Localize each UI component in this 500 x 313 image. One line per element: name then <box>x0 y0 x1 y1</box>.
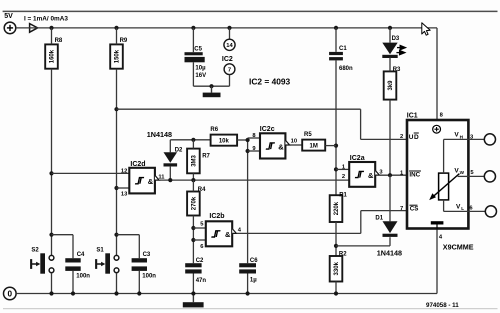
diode D1 <box>383 221 398 237</box>
pin 8 label <box>440 113 444 119</box>
pin 1 label <box>342 165 346 171</box>
label R4 <box>198 187 206 193</box>
IC1 internal VH wire <box>444 139 469 173</box>
pin 5 label <box>470 170 474 176</box>
svg-text:2: 2 <box>400 134 403 140</box>
wire node89 vertical <box>247 138 249 263</box>
pin 4 label <box>238 228 242 234</box>
wire U/D net <box>117 109 408 139</box>
label I = 1mA/ 0mA3 <box>24 15 68 22</box>
capacitor C3 <box>132 258 147 271</box>
svg-text:10: 10 <box>291 139 297 145</box>
IC1 label INC <box>409 171 421 178</box>
svg-text:C5: C5 <box>194 47 202 53</box>
op-gate IC2a <box>349 162 379 187</box>
IC1 internal VL wire <box>444 200 469 212</box>
label C4 value <box>76 274 90 280</box>
wire IC2d pin12 <box>52 172 130 174</box>
junction rail S1 <box>114 291 118 295</box>
label IC2d <box>130 161 145 168</box>
wire D2 R7 R6 node <box>170 139 210 141</box>
ground terminal 0 <box>4 287 17 300</box>
pin 11 label <box>158 174 165 180</box>
label R6 <box>210 127 218 133</box>
wire +5V rail <box>16 28 437 120</box>
wire IC2c pin9 <box>248 150 260 152</box>
junction top rail R8 <box>49 26 53 30</box>
junction node A pin1 <box>334 167 338 171</box>
svg-text:CS: CS <box>410 206 419 213</box>
svg-text:680n: 680n <box>339 66 353 72</box>
svg-text:R9: R9 <box>120 38 128 44</box>
junction top rail C1 <box>334 26 338 30</box>
wire IC2b pin6 <box>193 239 205 241</box>
capacitor C1 <box>329 52 343 60</box>
wire C5 bottom <box>193 62 229 86</box>
svg-text:D: D <box>414 134 419 141</box>
svg-text:2: 2 <box>342 174 345 180</box>
label IC2b <box>209 213 224 220</box>
IC1 label VW <box>454 167 464 175</box>
pin 8 label <box>252 133 256 139</box>
junction rail C6 <box>246 291 250 295</box>
label C6 <box>250 258 258 264</box>
IC2 pin 14 <box>224 28 235 51</box>
resistor R9 <box>110 44 123 68</box>
svg-text:C3: C3 <box>143 252 151 258</box>
pin 1 label <box>400 170 404 176</box>
wire C1 top <box>335 28 337 52</box>
svg-text:C1: C1 <box>339 46 347 52</box>
label C5 <box>194 47 202 53</box>
LED D3 <box>382 43 397 58</box>
label D1 <box>375 216 383 222</box>
wire S2 bottom <box>51 273 53 294</box>
wire IC2d pin13 <box>117 187 130 189</box>
junction R8 pin12 <box>49 171 53 175</box>
pin 5 label <box>200 221 204 227</box>
svg-text:16V: 16V <box>195 73 206 79</box>
capacitor C4 <box>65 258 80 271</box>
junction R9 pin13 <box>114 186 118 190</box>
svg-text:I = 1mA/ 0mA3: I = 1mA/ 0mA3 <box>24 15 68 22</box>
wire R5 out <box>325 145 336 147</box>
wire IC2c out <box>290 144 302 146</box>
resistor R3 <box>384 71 397 99</box>
IC1 plus marker <box>433 125 441 133</box>
junction rail C2 <box>191 291 195 295</box>
wire D3 top <box>389 28 391 43</box>
svg-text:C6: C6 <box>250 258 258 264</box>
terminal VL <box>485 206 496 217</box>
junction node11 R7 R4 <box>191 178 195 182</box>
junction R9 UD line <box>114 107 118 111</box>
svg-text:IC2 = 4093: IC2 = 4093 <box>249 77 291 87</box>
junction node89 bottom <box>246 149 250 153</box>
wire R4 to IC2b <box>192 216 194 264</box>
label C3 <box>143 252 151 258</box>
junction node A R5 <box>334 144 338 148</box>
svg-text:IC2: IC2 <box>222 56 233 63</box>
svg-text:0: 0 <box>8 290 13 299</box>
wire C6 bottom <box>247 274 249 294</box>
wire C2 bottom <box>192 274 194 294</box>
wire IC2a out to INC <box>380 174 407 176</box>
wire IC2a pin1 <box>336 168 349 170</box>
svg-text:7: 7 <box>400 206 403 212</box>
op-gate IC2c <box>260 133 290 158</box>
label R8 <box>55 38 63 44</box>
mouse cursor <box>422 23 430 35</box>
resistor R7 <box>187 149 200 174</box>
wire R8 to S2 <box>51 69 53 256</box>
pin 4 label <box>439 234 443 240</box>
label 974058 - 11 <box>426 302 459 309</box>
svg-text:1N4148: 1N4148 <box>377 248 402 257</box>
wire R9 to S1 <box>116 69 118 256</box>
label 1N4148 top <box>147 130 172 139</box>
junction rail C3 <box>137 291 141 295</box>
junction rail C4 <box>71 291 75 295</box>
wire R3 to INC node <box>389 100 391 176</box>
border frame bottom <box>3 308 498 310</box>
label C4 <box>77 252 85 258</box>
svg-text:R3: R3 <box>393 67 401 73</box>
border frame top <box>3 10 498 12</box>
label D2 <box>175 147 183 153</box>
wire R1 bottom <box>335 222 337 256</box>
label R3 <box>393 67 401 73</box>
svg-text:150k: 150k <box>115 49 121 63</box>
svg-text:IC1: IC1 <box>407 112 418 119</box>
svg-text:12: 12 <box>121 169 127 175</box>
label IC1 <box>407 112 418 119</box>
switch S2 <box>30 253 54 273</box>
IC1 label VL <box>456 203 464 211</box>
svg-text:330k: 330k <box>334 261 340 275</box>
svg-text:D3: D3 <box>392 36 400 42</box>
junction top rail IC2 pin14 <box>227 26 231 30</box>
resistor R1 <box>330 195 343 222</box>
pin 3 label <box>470 134 474 140</box>
label 1N4148 bottom <box>377 248 402 257</box>
svg-text:C2: C2 <box>196 258 204 264</box>
label R2 <box>339 251 347 257</box>
label IC2 <box>222 56 233 63</box>
pin 2 label <box>342 174 345 180</box>
junction rail S2 <box>49 291 53 295</box>
capacitor C2 <box>185 263 201 273</box>
LED D3 arrows <box>396 46 405 55</box>
svg-text:&: & <box>278 142 284 151</box>
IC1 internal VW wire <box>458 175 469 177</box>
label D3 <box>392 36 400 42</box>
wire D1 cathode <box>336 237 390 246</box>
label IC2 = 4093 <box>249 77 291 87</box>
ground C5 <box>203 86 221 97</box>
wire C1 bottom to node A <box>335 60 337 195</box>
svg-text:IC2a: IC2a <box>350 155 365 162</box>
label C1 <box>339 46 347 52</box>
wire IC2b out to CS <box>237 211 407 234</box>
wire D1 anode <box>389 175 391 221</box>
op-gate IC2d <box>129 168 159 194</box>
resistor R2 <box>330 256 343 282</box>
junction R7 top <box>191 138 195 142</box>
svg-text:5V: 5V <box>4 13 13 20</box>
supply terminal +5V <box>4 22 16 34</box>
junction C5 ground <box>209 84 213 88</box>
label C1 value <box>339 66 353 72</box>
wire R9 top <box>116 28 118 45</box>
svg-text:R2: R2 <box>339 251 347 257</box>
switch S1 <box>95 253 119 273</box>
svg-text:X9CMME: X9CMME <box>443 242 474 251</box>
pin 9 label <box>252 146 256 152</box>
junction S1 top node <box>114 233 118 237</box>
label S1 <box>96 247 104 253</box>
wire D2 anode stub <box>169 140 171 153</box>
resistor R4 <box>187 192 200 216</box>
wire S1 bottom <box>116 273 118 294</box>
wire 0V rail <box>16 229 437 294</box>
wire node11 line <box>160 179 349 181</box>
label C2 value <box>196 278 207 284</box>
svg-text:3k9: 3k9 <box>388 80 394 91</box>
junction INC node <box>388 173 392 177</box>
pin 13 label <box>121 191 128 197</box>
svg-text:D2: D2 <box>175 147 183 153</box>
svg-text:14: 14 <box>226 43 233 49</box>
svg-text:S2: S2 <box>31 247 39 253</box>
op-amp IC1 body <box>407 120 468 229</box>
svg-text:R1: R1 <box>339 192 347 198</box>
svg-text:IC2d: IC2d <box>130 161 145 168</box>
svg-text:100n: 100n <box>76 274 90 280</box>
IC1 wiper arrow <box>429 174 459 201</box>
junction S2 top node <box>49 233 53 237</box>
IC1 potentiometer <box>439 173 449 200</box>
IC1 label CS <box>410 205 419 212</box>
svg-text:10k: 10k <box>219 138 230 144</box>
ground bottom rail <box>183 294 204 308</box>
svg-text:R7: R7 <box>202 153 210 159</box>
junction node89 top <box>246 138 250 142</box>
wire R7 top stub <box>192 140 194 149</box>
wire R8 top <box>51 28 53 45</box>
svg-text:270k: 270k <box>192 196 198 210</box>
svg-text:&: & <box>148 177 154 186</box>
junction top rail D3 <box>388 26 392 30</box>
wire C5 top <box>192 28 194 52</box>
svg-text:W: W <box>460 170 465 175</box>
label R5 <box>304 132 312 138</box>
junction rail R2 <box>334 291 338 295</box>
svg-text:1N4148: 1N4148 <box>147 130 172 139</box>
diode D2 <box>164 152 178 166</box>
terminal VW <box>484 171 495 182</box>
svg-text:220k: 220k <box>334 201 340 215</box>
label S2 <box>31 247 39 253</box>
wire R7 bottom stub <box>192 173 194 180</box>
resistor R6 <box>211 135 238 146</box>
label C5 value <box>195 66 206 79</box>
label R7 <box>202 153 210 159</box>
svg-text:R6: R6 <box>210 127 218 133</box>
wire R4 top stub <box>192 180 194 191</box>
label C2 <box>196 258 204 264</box>
label 5V <box>4 13 13 20</box>
svg-text:10µ: 10µ <box>195 66 206 72</box>
svg-text:C4: C4 <box>77 252 85 258</box>
wire C4 bottom <box>72 271 74 294</box>
svg-text:R4: R4 <box>198 187 206 193</box>
pin 2 label <box>400 134 403 140</box>
svg-text:47n: 47n <box>196 278 207 284</box>
svg-text:L: L <box>461 206 464 211</box>
svg-text:160k: 160k <box>50 49 56 63</box>
wire R2 bottom <box>335 282 337 294</box>
junction R1 R2 D1 <box>334 244 338 248</box>
op-gate IC2b <box>206 221 237 246</box>
junction top rail C5 <box>191 26 195 30</box>
junction IC2b pin5 <box>191 226 195 230</box>
wire S1-C3 link <box>117 235 140 259</box>
label X9CMME <box>443 242 474 251</box>
pin 7 label <box>400 206 403 212</box>
label IC2a <box>350 155 365 162</box>
label R1 <box>339 192 347 198</box>
pin 10 label <box>291 139 297 145</box>
svg-text:974058 - 11: 974058 - 11 <box>426 302 459 309</box>
svg-text:IC2c: IC2c <box>260 126 275 133</box>
resistor R5 <box>302 140 325 151</box>
pin 6 label <box>200 244 204 250</box>
label R9 <box>120 38 128 44</box>
resistor R8 <box>45 44 58 68</box>
svg-text:11: 11 <box>158 174 165 180</box>
svg-text:R8: R8 <box>55 38 63 44</box>
svg-text:3M3: 3M3 <box>192 154 198 166</box>
svg-text:D1: D1 <box>375 216 383 222</box>
IC2 pin 7 <box>224 64 235 86</box>
capacitor C5 <box>185 52 205 62</box>
svg-text:&: & <box>368 171 374 180</box>
svg-text:S1: S1 <box>96 247 104 253</box>
label C6 value <box>250 277 257 283</box>
pin 12 label <box>121 169 127 175</box>
wire VW pin5 <box>468 175 484 177</box>
svg-text:100n: 100n <box>142 274 156 280</box>
svg-text:1M: 1M <box>310 143 318 149</box>
pin 6 label <box>469 206 473 212</box>
wire R6 to node89 <box>237 139 248 141</box>
terminal VH <box>484 134 495 145</box>
junction IC2b pin6 <box>191 238 195 242</box>
IC1 internal ground <box>431 221 444 228</box>
IC1 label VH <box>454 132 463 140</box>
svg-text:1µ: 1µ <box>250 277 257 283</box>
wire D2 cathode stub <box>169 167 171 181</box>
svg-text:R5: R5 <box>304 132 312 138</box>
wire VH pin3 <box>468 138 484 140</box>
svg-text:IC2b: IC2b <box>209 213 224 220</box>
wire S2-C4 link <box>52 235 74 259</box>
label C3 value <box>142 274 156 280</box>
wire IC2c pin8 <box>248 137 260 139</box>
wire D3 to R3 <box>389 57 391 71</box>
current probe arrow <box>30 24 38 33</box>
junction top rail R9 <box>114 26 118 30</box>
wire IC2b pin5 <box>193 227 205 229</box>
svg-text:13: 13 <box>121 191 128 197</box>
wire C3 bottom <box>138 271 140 294</box>
capacitor C6 <box>239 263 256 273</box>
wire VL pin6 <box>468 210 485 212</box>
junction node11 D2 <box>168 178 172 182</box>
svg-text:7: 7 <box>228 68 231 74</box>
svg-text:&: & <box>225 230 231 239</box>
svg-text:INC: INC <box>409 171 420 178</box>
IC1 label U/D <box>409 133 419 141</box>
pin 3 label <box>379 169 383 175</box>
label IC2c <box>260 126 275 133</box>
